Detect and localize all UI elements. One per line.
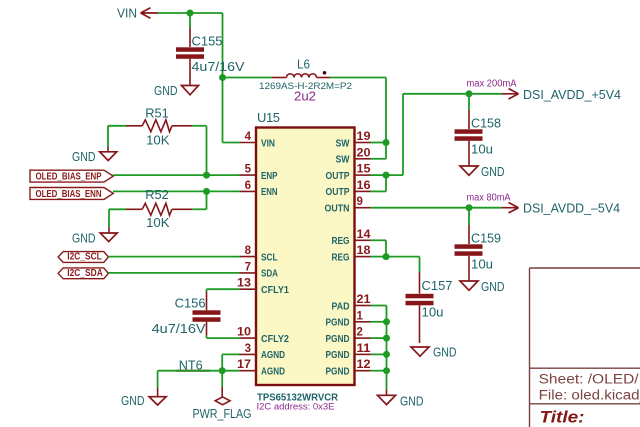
svg-text:GND: GND [481,164,505,179]
value 1269AS-H-2R2M=P2 [259,81,352,92]
svg-text:DSI_AVDD_–5V4: DSI_AVDD_–5V4 [523,201,620,216]
svg-text:18: 18 [357,245,372,257]
svg-text:16: 16 [357,180,371,192]
node REG junction [383,253,390,260]
title block sheet text [539,371,639,386]
svg-text:10u: 10u [422,305,444,320]
svg-text:20: 20 [357,147,371,159]
pin 7 SDA [240,261,279,279]
reference C155 [192,34,223,49]
value TPS65132WRVCR [257,392,338,404]
svg-text:ENP: ENP [261,171,278,182]
svg-text:Title:: Title: [540,409,585,427]
svg-text:U15: U15 [257,110,280,125]
node AGND junction [219,367,226,374]
svg-text:4: 4 [245,131,252,143]
svg-text:PGND: PGND [326,367,350,378]
value 10K [146,133,170,148]
resistor R51 [108,120,207,132]
svg-text:SCL: SCL [261,252,278,263]
svg-text:PGND: PGND [326,350,350,361]
pin 10 CFLY2 [237,327,289,345]
wire R51 to ENP junction [206,126,208,175]
svg-text:L6: L6 [297,57,310,72]
node PGND junction 3 [383,351,390,358]
net tie NT6 [176,370,210,372]
wire junction to corner [190,12,223,14]
capacitor C159 [455,208,483,281]
ground below C158 [460,164,505,179]
reference C157 [422,278,453,293]
svg-text:CFLY2: CFLY2 [261,334,289,345]
svg-text:PGND: PGND [326,334,350,345]
value 10u [471,142,493,157]
svg-text:5: 5 [245,164,252,176]
svg-text:C159: C159 [471,231,501,246]
pin 9 OUTN [325,196,371,214]
svg-text:C156: C156 [175,296,206,311]
wire into pin 19 [371,142,387,144]
pin 4 VIN [240,131,276,149]
pin 18 REG [332,245,372,263]
svg-text:ENN: ENN [261,187,278,198]
wire R51 to GND [107,126,109,152]
title block file text [539,388,640,403]
capacitor C156 [193,292,221,336]
svg-text:PWR_FLAG: PWR_FLAG [193,406,252,421]
pin 19 SW [336,131,371,149]
svg-text:OUTN: OUTN [325,204,350,215]
reference C159 [471,231,501,246]
node PGND junction 4 [383,367,390,374]
value 4u7/16V [192,59,245,74]
field max 80mA [467,193,511,204]
svg-text:GND: GND [154,83,178,98]
pin 8 SCL [240,245,278,263]
svg-text:2: 2 [357,327,363,339]
node OUTP junction [383,172,390,179]
wire OUTP up to +5V4 rail [386,94,502,175]
svg-text:9: 9 [357,196,363,208]
svg-text:21: 21 [357,294,372,306]
title block frame [530,268,640,427]
pin 16 OUTP [326,180,371,198]
global label DSI_AVDD_&#8211;5V4 [502,201,621,216]
pin 15 OUTP [326,164,372,182]
pin 12 PGND [326,359,371,377]
wire PAD/PGND chain [371,306,387,390]
svg-text:max 80mA: max 80mA [467,193,511,204]
svg-text:SDA: SDA [261,269,278,280]
reference C158 [471,116,501,131]
value 10K [146,215,170,230]
svg-text:C158: C158 [471,116,501,131]
svg-text:File: oled.kicad_sch: File: oled.kicad_sch [539,388,640,403]
pin 17 AGND [237,359,285,377]
svg-text:Sheet: /OLED/: Sheet: /OLED/ [539,371,639,386]
svg-text:GND: GND [121,393,145,408]
pin 13 CFLY1 [237,278,289,296]
ground below AGND [121,393,166,408]
ground below R52 [72,231,117,246]
capacitor C157 [406,272,434,343]
wire junction to inductor [223,77,273,79]
svg-text:OUTP: OUTP [326,187,350,198]
ground below PGND [378,390,424,409]
svg-text:GND: GND [481,279,505,294]
svg-text:6: 6 [245,180,251,192]
capacitor C155 [176,13,204,85]
value 4u7/16V [152,321,206,336]
svg-text:10K: 10K [146,133,170,148]
field I2C address: 0x3E [257,402,335,413]
svg-text:8: 8 [245,245,252,257]
svg-text:C157: C157 [422,278,453,293]
wire pin19 to pin 20 [371,143,387,159]
wire C156 to CFLY2 [207,336,240,339]
svg-text:GND: GND [400,394,424,409]
wire OUTN to -5V4 [371,207,502,209]
reference R51 [145,106,169,121]
node PGND junction 2 [383,335,390,342]
wire R52 to GND [108,209,110,233]
field 2u2 [294,89,316,104]
reference L6 [297,57,310,72]
wire AGND to PWR_FLAG [221,371,223,397]
svg-text:10K: 10K [146,215,170,230]
wire SCL [108,256,239,258]
global label I2C_SDA [58,268,108,279]
pin 21 PAD [332,294,372,312]
pin 2 PGND [326,327,371,345]
pin 6 ENN [240,180,278,198]
svg-text:max 200mA: max 200mA [467,79,517,90]
global label DSI_AVDD_+5V4 [502,87,622,102]
wire SDA [108,272,239,274]
wire AGND pins join [222,354,239,370]
svg-text:OLED_BIAS_ENN: OLED_BIAS_ENN [36,188,102,200]
svg-text:I2C_SCL: I2C_SCL [67,252,102,263]
svg-text:OUTP: OUTP [326,171,350,182]
wire VIN to junction [158,12,190,14]
svg-text:CFLY1: CFLY1 [261,285,289,296]
global label VIN [117,6,158,21]
pin 5 ENP [240,164,278,182]
svg-text:SW: SW [336,138,350,149]
svg-text:17: 17 [237,359,251,371]
pin 1 PGND [326,310,371,328]
svg-text:3: 3 [245,343,251,355]
svg-text:10u: 10u [471,142,493,157]
svg-text:AGND: AGND [261,350,285,361]
wire down to pin 4 [223,78,240,143]
svg-text:2u2: 2u2 [294,89,316,104]
node junction at VIN column [219,74,226,81]
svg-text:GND: GND [72,231,96,246]
wire AGND to GND [158,371,223,397]
svg-text:PGND: PGND [326,318,350,329]
wire ENN [113,190,240,192]
svg-text:13: 13 [237,278,251,290]
capacitor C158 [455,94,483,166]
pin 14 REG [332,229,372,247]
svg-text:GND: GND [433,345,457,360]
power flag PWR_FLAG [193,397,252,421]
pin 3 AGND [240,343,286,361]
wire REG to C157 [386,257,420,272]
inductor L6 [272,71,330,78]
svg-text:C155: C155 [192,34,223,49]
ground below C159 [460,279,505,294]
svg-text:15: 15 [357,164,372,176]
svg-text:4u7/16V: 4u7/16V [192,59,245,74]
resistor R52 [109,203,207,215]
reference U15 [257,110,280,125]
svg-text:VIN: VIN [261,138,275,149]
node -5V4 junction [466,204,473,211]
svg-text:R51: R51 [145,106,169,121]
wire REG pins join [371,240,387,256]
svg-text:REG: REG [332,236,350,247]
svg-text:7: 7 [245,261,251,273]
svg-text:10: 10 [237,327,251,339]
svg-text:REG: REG [332,252,350,263]
svg-text:PAD: PAD [332,301,350,312]
svg-text:GND: GND [72,149,96,164]
wire OUTP pins join [371,175,387,191]
node SW junction [383,139,390,146]
ground below C157 [411,345,457,360]
svg-text:R52: R52 [145,187,169,202]
value 10u [471,257,493,272]
global label OLED_BIAS_ENP [30,170,113,182]
global label I2C_SCL [58,252,108,263]
svg-text:11: 11 [357,343,372,355]
wire R52 right to ENN junction [206,191,208,209]
reference C156 [175,296,206,311]
global label OLED_BIAS_ENN [30,188,113,200]
svg-text:10u: 10u [471,257,493,272]
svg-text:VIN: VIN [117,6,137,21]
svg-text:OLED_BIAS_ENP: OLED_BIAS_ENP [36,171,102,183]
node ENN junction [203,188,210,195]
svg-text:19: 19 [357,131,371,143]
svg-text:14: 14 [357,229,372,241]
svg-text:SW: SW [336,155,350,166]
svg-text:AGND: AGND [261,367,285,378]
ground below C155 [154,83,199,98]
title block Title label [540,409,585,427]
svg-text:4u7/16V: 4u7/16V [152,321,206,336]
svg-text:1: 1 [357,310,364,322]
field max 200mA [467,79,517,90]
svg-text:DSI_AVDD_+5V4: DSI_AVDD_+5V4 [523,87,621,102]
node +5V4 junction [466,90,473,97]
node PGND junction 1 [383,318,390,325]
wire L6 to SW column [330,77,386,79]
wire ENP [113,174,240,176]
svg-text:I2C_SDA: I2C_SDA [67,268,103,279]
value 10u [422,305,444,320]
wire CFLY1 to C156 [207,289,240,291]
IC U15 body [256,128,355,386]
ground below R51 [72,149,117,164]
pin 11 PGND [326,343,372,361]
label NT6 [179,358,203,373]
wire SW column down [385,78,387,143]
pin 20 SW [336,147,371,165]
node VIN junction [187,10,194,17]
reference R52 [145,187,169,202]
svg-text:12: 12 [357,359,371,371]
wire corner down to VIN branch [222,13,224,78]
svg-text:I2C address: 0x3E: I2C address: 0x3E [257,402,335,413]
node ENP junction [203,172,210,179]
